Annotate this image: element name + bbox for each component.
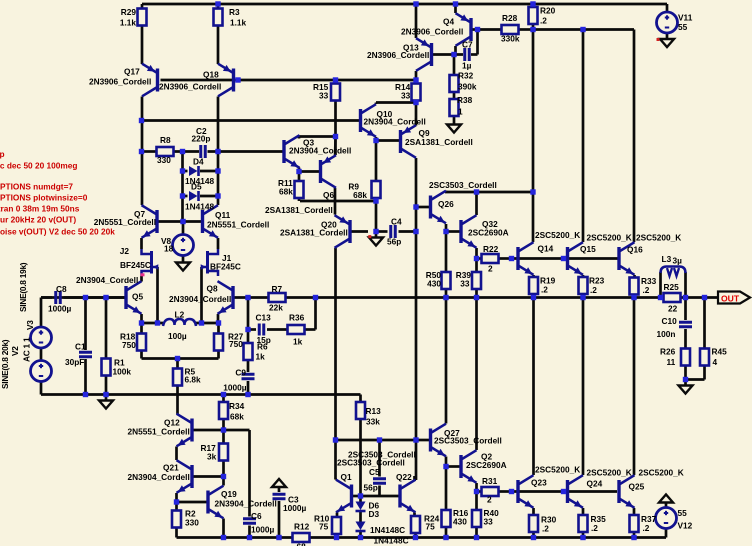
svg-text:1N4148: 1N4148 bbox=[185, 202, 214, 212]
svg-text:2: 2 bbox=[487, 495, 492, 505]
svg-text:.OPTIONS plotwinsize=0: .OPTIONS plotwinsize=0 bbox=[0, 193, 88, 203]
svg-text:C1: C1 bbox=[75, 342, 86, 352]
svg-text:.OPTIONS numdgt=7: .OPTIONS numdgt=7 bbox=[0, 182, 73, 192]
svg-text:R8: R8 bbox=[160, 135, 171, 145]
svg-text:2N3906_Cordell: 2N3906_Cordell bbox=[89, 77, 151, 87]
svg-text:4: 4 bbox=[713, 357, 718, 367]
svg-text:V11: V11 bbox=[678, 13, 693, 23]
svg-text:.2: .2 bbox=[590, 285, 597, 295]
svg-text:1: 1 bbox=[458, 107, 463, 117]
svg-text:100n: 100n bbox=[657, 329, 676, 339]
svg-text:75: 75 bbox=[319, 522, 329, 532]
svg-text:.ac dec 50 20 100meg: .ac dec 50 20 100meg bbox=[0, 161, 77, 171]
svg-text:V3: V3 bbox=[25, 320, 35, 330]
svg-text:D4: D4 bbox=[193, 157, 204, 167]
svg-text:55: 55 bbox=[678, 22, 688, 32]
svg-text:56p: 56p bbox=[387, 237, 401, 247]
svg-text:.noise v(OUT) V2 dec 50 20 20k: .noise v(OUT) V2 dec 50 20 20k bbox=[0, 227, 115, 237]
svg-text:R22: R22 bbox=[483, 244, 499, 254]
svg-text:R36: R36 bbox=[289, 313, 305, 323]
svg-text:1k: 1k bbox=[256, 352, 266, 362]
svg-text:430: 430 bbox=[427, 279, 441, 289]
svg-text:75: 75 bbox=[426, 522, 436, 532]
svg-text:C10: C10 bbox=[662, 316, 678, 326]
svg-text:.2: .2 bbox=[643, 285, 650, 295]
svg-text:2SC5200_K: 2SC5200_K bbox=[535, 230, 580, 240]
svg-text:OUT: OUT bbox=[721, 294, 740, 304]
svg-text:2SC5200_K: 2SC5200_K bbox=[535, 465, 580, 475]
svg-text:3k: 3k bbox=[207, 452, 217, 462]
svg-text:2SA1381_Cordell: 2SA1381_Cordell bbox=[280, 228, 348, 238]
svg-text:R6: R6 bbox=[257, 342, 268, 352]
svg-text:C4: C4 bbox=[391, 217, 402, 227]
svg-text:.2: .2 bbox=[591, 523, 598, 533]
svg-text:2N5551_Cordell: 2N5551_Cordell bbox=[94, 217, 156, 227]
svg-text:68: 68 bbox=[297, 542, 307, 546]
svg-text:1N4148C: 1N4148C bbox=[370, 525, 405, 535]
svg-text:2N3906_Cordell: 2N3906_Cordell bbox=[159, 82, 221, 92]
svg-text:2SC2690A: 2SC2690A bbox=[466, 460, 507, 470]
svg-text:2SC5200_K: 2SC5200_K bbox=[636, 233, 681, 243]
svg-text:2SC3503_Cordell: 2SC3503_Cordell bbox=[434, 436, 502, 446]
svg-text:56p: 56p bbox=[364, 483, 378, 493]
svg-text:C9: C9 bbox=[235, 368, 246, 378]
svg-text:Q1: Q1 bbox=[341, 472, 352, 482]
svg-text:C5: C5 bbox=[369, 467, 380, 477]
svg-text:1000µ: 1000µ bbox=[48, 304, 71, 314]
svg-text:R13: R13 bbox=[366, 406, 382, 416]
svg-text:330: 330 bbox=[185, 518, 199, 528]
svg-text:1k: 1k bbox=[293, 337, 303, 347]
svg-text:2N3904_Cordell: 2N3904_Cordell bbox=[215, 499, 277, 509]
svg-text:BF245C: BF245C bbox=[120, 260, 151, 270]
svg-text:1000µ: 1000µ bbox=[223, 383, 246, 393]
svg-text:2SC5200_K: 2SC5200_K bbox=[587, 468, 632, 478]
svg-text:C13: C13 bbox=[256, 313, 272, 323]
svg-text:.temp: .temp bbox=[0, 149, 5, 159]
svg-text:22k: 22k bbox=[269, 303, 283, 313]
svg-text:2SA1381_Cordell: 2SA1381_Cordell bbox=[405, 137, 473, 147]
svg-text:R29: R29 bbox=[121, 7, 137, 17]
svg-text:30pF: 30pF bbox=[65, 357, 84, 367]
svg-text:2N5551_Cordell: 2N5551_Cordell bbox=[207, 220, 269, 230]
svg-text:Q25: Q25 bbox=[629, 482, 645, 492]
svg-text:.tran 0 38m 19m 50ns: .tran 0 38m 19m 50ns bbox=[0, 204, 80, 214]
svg-text:R20: R20 bbox=[540, 6, 556, 16]
svg-text:330: 330 bbox=[157, 155, 171, 165]
svg-text:2N3904_Cordell: 2N3904_Cordell bbox=[169, 294, 231, 304]
svg-text:33: 33 bbox=[401, 91, 411, 101]
svg-text:Q24: Q24 bbox=[587, 479, 603, 489]
svg-text:L3: L3 bbox=[662, 254, 672, 264]
svg-text:D3: D3 bbox=[369, 509, 380, 519]
svg-text:D5: D5 bbox=[191, 182, 202, 192]
svg-text:68k: 68k bbox=[353, 190, 367, 200]
svg-text:V12: V12 bbox=[678, 521, 693, 531]
svg-text:AC 1 1: AC 1 1 bbox=[22, 337, 32, 362]
svg-text:750: 750 bbox=[122, 340, 136, 350]
svg-text:SINE(0.8 19k): SINE(0.8 19k) bbox=[18, 262, 28, 312]
svg-text:2N3904_Cordell: 2N3904_Cordell bbox=[364, 117, 426, 127]
svg-text:22: 22 bbox=[668, 304, 678, 314]
svg-text:11: 11 bbox=[667, 357, 676, 367]
svg-text:68k: 68k bbox=[230, 412, 244, 422]
svg-text:220p: 220p bbox=[192, 134, 211, 144]
svg-text:2N5551_Cordell: 2N5551_Cordell bbox=[128, 427, 190, 437]
svg-text:2SC5200_K: 2SC5200_K bbox=[639, 468, 684, 478]
svg-text:1.1k: 1.1k bbox=[120, 18, 137, 28]
svg-text:R12: R12 bbox=[294, 522, 310, 532]
svg-text:430: 430 bbox=[453, 517, 467, 527]
svg-text:750: 750 bbox=[229, 339, 243, 349]
svg-text:Q18: Q18 bbox=[203, 70, 219, 80]
svg-text:Q8: Q8 bbox=[207, 284, 218, 294]
svg-text:R32: R32 bbox=[458, 71, 474, 81]
svg-text:.2: .2 bbox=[541, 285, 548, 295]
svg-text:Q19: Q19 bbox=[221, 489, 237, 499]
svg-text:BF245C: BF245C bbox=[210, 262, 241, 272]
svg-text:Q5: Q5 bbox=[132, 292, 143, 302]
svg-text:.2: .2 bbox=[540, 16, 547, 26]
svg-text:2: 2 bbox=[488, 264, 493, 274]
svg-text:2N3904_Cordell: 2N3904_Cordell bbox=[289, 146, 351, 156]
svg-text:330k: 330k bbox=[501, 34, 520, 44]
svg-text:33: 33 bbox=[319, 91, 329, 101]
svg-text:R3: R3 bbox=[229, 7, 240, 17]
svg-text:R38: R38 bbox=[457, 95, 473, 105]
svg-text:SINE(0.8 20k): SINE(0.8 20k) bbox=[0, 339, 10, 389]
svg-text:1000µ: 1000µ bbox=[251, 525, 274, 535]
svg-text:2N3904_Cordell: 2N3904_Cordell bbox=[128, 472, 190, 482]
svg-text:68k: 68k bbox=[279, 187, 293, 197]
svg-text:Q17: Q17 bbox=[124, 67, 140, 77]
svg-text:1N4148C: 1N4148C bbox=[374, 536, 409, 546]
svg-text:Q6: Q6 bbox=[323, 190, 334, 200]
svg-text:100µ: 100µ bbox=[168, 331, 187, 341]
svg-text:Q4: Q4 bbox=[443, 17, 454, 27]
svg-text:Q15: Q15 bbox=[580, 244, 596, 254]
svg-text:2SC5200_K: 2SC5200_K bbox=[587, 233, 632, 243]
svg-text:33: 33 bbox=[484, 517, 494, 527]
svg-text:1000µ: 1000µ bbox=[283, 503, 306, 513]
svg-text:Q22: Q22 bbox=[396, 472, 412, 482]
svg-text:Q11: Q11 bbox=[215, 210, 231, 220]
svg-text:Q26: Q26 bbox=[438, 199, 454, 209]
svg-text:33: 33 bbox=[460, 279, 470, 289]
svg-text:L2: L2 bbox=[175, 310, 185, 320]
svg-text:R25: R25 bbox=[664, 282, 680, 292]
svg-text:2N3906_Cordell: 2N3906_Cordell bbox=[367, 50, 429, 60]
svg-text:33k: 33k bbox=[366, 417, 380, 427]
svg-text:2SC3503_Cordell: 2SC3503_Cordell bbox=[337, 458, 405, 468]
svg-text:R7: R7 bbox=[272, 284, 283, 294]
svg-text:R26: R26 bbox=[660, 347, 676, 357]
svg-text:Q23: Q23 bbox=[531, 478, 547, 488]
svg-text:2N3906_Cordell: 2N3906_Cordell bbox=[401, 27, 463, 37]
svg-text:2SA1381_Cordell: 2SA1381_Cordell bbox=[265, 205, 333, 215]
svg-text:Q14: Q14 bbox=[538, 244, 554, 254]
svg-text:390k: 390k bbox=[458, 82, 477, 92]
svg-text:Q16: Q16 bbox=[627, 245, 643, 255]
svg-text:R31: R31 bbox=[482, 476, 498, 486]
svg-text:.four 20kHz 20 v(OUT): .four 20kHz 20 v(OUT) bbox=[0, 215, 76, 225]
svg-text:6.8k: 6.8k bbox=[185, 375, 202, 385]
svg-text:100k: 100k bbox=[113, 367, 132, 377]
svg-text:1µ: 1µ bbox=[462, 61, 472, 71]
svg-text:R23: R23 bbox=[589, 276, 605, 286]
svg-text:R28: R28 bbox=[502, 13, 518, 23]
svg-text:2N3904_Cordell: 2N3904_Cordell bbox=[76, 275, 138, 285]
svg-text:55: 55 bbox=[678, 508, 688, 518]
svg-text:.2: .2 bbox=[542, 524, 549, 534]
svg-text:Q21: Q21 bbox=[163, 463, 179, 473]
svg-text:C6: C6 bbox=[251, 511, 262, 521]
svg-text:C8: C8 bbox=[56, 284, 67, 294]
svg-text:V2: V2 bbox=[10, 346, 20, 356]
svg-text:2SC2690A: 2SC2690A bbox=[468, 228, 509, 238]
svg-text:C7: C7 bbox=[462, 40, 473, 50]
svg-text:J2: J2 bbox=[120, 246, 130, 256]
svg-text:1.1k: 1.1k bbox=[230, 18, 247, 28]
svg-text:.2: .2 bbox=[643, 523, 650, 533]
svg-text:18: 18 bbox=[164, 244, 174, 254]
svg-text:3µ: 3µ bbox=[673, 256, 683, 266]
svg-text:R34: R34 bbox=[229, 401, 245, 411]
svg-text:R45: R45 bbox=[712, 347, 728, 357]
svg-text:2SC3503_Cordell: 2SC3503_Cordell bbox=[429, 180, 497, 190]
